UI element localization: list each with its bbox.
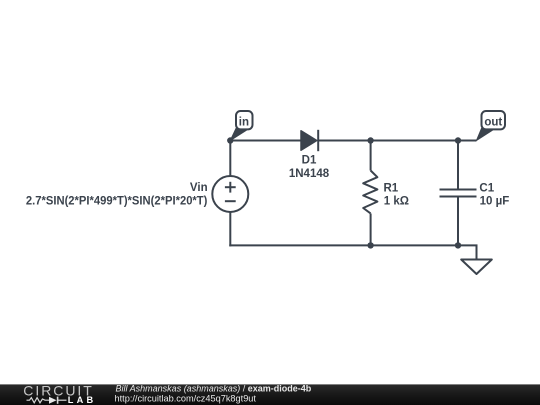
footer bar [0,384,540,405]
wire: top rail, node in to diode D1 anode [230,140,301,142]
wire: node R1 to node C1 [371,140,458,142]
svg-text:Vin: Vin [190,182,208,194]
wire: diode D1 cathode to node R1 [318,140,370,142]
footer url line [115,393,257,403]
capacitor C1 [440,190,477,197]
wire: bottom rail to ground stub [458,245,477,259]
node: diode cathode / resistor top [367,137,373,143]
svg-text:10 µF: 10 µF [480,196,510,208]
wire: top node down to capacitor C1 [457,141,459,190]
value label 10 uF [480,196,510,208]
value label 2.7*SIN(2*PI*499*T)*SIN(2*PI*20*T) [26,196,208,208]
svg-text:C1: C1 [479,182,494,194]
footer credit line [116,384,312,394]
wire: left vertical, node in down to source V top [229,141,231,177]
voltage source Vin [212,176,248,212]
label C1 [479,182,494,194]
svg-text:D1: D1 [302,155,317,167]
logo CIRCUIT text [23,383,93,399]
wire: source V bottom to bottom rail [229,212,231,246]
ground [461,260,492,275]
svg-text:LAB: LAB [68,395,96,405]
node: out / capacitor top [455,137,461,143]
resistor R1 [363,171,377,214]
label D1 [302,155,317,167]
logo resistor-diode glyph [27,397,67,404]
node: resistor bottom rail [367,242,373,248]
svg-text:out: out [484,117,502,129]
svg-text:1 kΩ: 1 kΩ [384,196,409,208]
node: in at top of source [227,137,233,143]
label Vin [190,182,208,194]
wire: top node down to resistor R1 [370,141,372,171]
svg-text:R1: R1 [384,182,399,194]
flag node in [230,111,252,141]
wire: resistor R1 to bottom rail [370,214,372,247]
svg-text:2.7*SIN(2*PI*499*T)*SIN(2*PI*2: 2.7*SIN(2*PI*499*T)*SIN(2*PI*20*T) [26,196,208,208]
wire: capacitor C1 to bottom rail [457,197,459,247]
value label 1N4148 [289,168,330,180]
wire: node C1 to out flag stub [458,140,477,142]
value label 1 kOhm [384,196,409,208]
label R1 [384,182,399,194]
svg-text:1N4148: 1N4148 [289,168,330,180]
svg-text:Bill Ashmanskas (ashmanskas) /: Bill Ashmanskas (ashmanskas) / exam-diod… [116,384,312,394]
wire: bottom rail [229,244,458,246]
logo LAB text [68,395,96,405]
node: capacitor bottom rail [455,242,461,248]
diode D1 [301,130,318,151]
svg-text:in: in [239,117,249,129]
svg-text:http://circuitlab.com/cz45q7k8: http://circuitlab.com/cz45q7k8gt9ut [115,393,257,403]
flag node out [477,111,506,141]
